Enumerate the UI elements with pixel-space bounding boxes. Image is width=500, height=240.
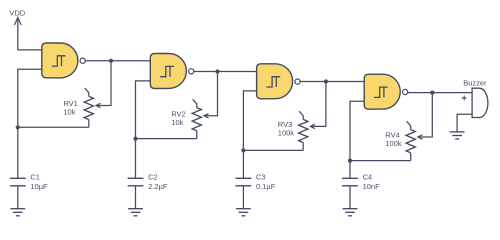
variable resistor RV4	[407, 121, 411, 129]
inverting output bubble of U4	[403, 89, 408, 94]
svg-text:C4: C4	[363, 172, 373, 181]
wire feedback node to RV1 bottom	[18, 126, 89, 128]
inverting output bubble of U3	[295, 79, 300, 84]
wire VDD to U1 top input	[18, 49, 42, 51]
svg-text:100k: 100k	[278, 128, 295, 137]
wire U4 output to buzzer	[408, 92, 472, 94]
wire U4 output node to RV4 wiper	[418, 93, 432, 137]
wire U3 output to U4 input	[300, 81, 364, 83]
wire U1 output to U2 input	[85, 60, 150, 62]
Schmitt-trigger NAND gate U3	[257, 64, 293, 99]
wire feedback node down to C2	[135, 139, 137, 179]
wire buzzer negative lead to ground	[457, 114, 472, 132]
hysteresis symbol inside U2	[160, 66, 174, 76]
Schmitt-trigger NAND gate U1	[42, 43, 78, 78]
wiper arrow of RV1	[96, 103, 101, 107]
wire U4 bottom input to feedback node	[350, 101, 364, 160]
inverting output bubble of U2	[189, 69, 194, 74]
hysteresis symbol inside U4	[374, 87, 388, 97]
junction node output of U4	[430, 91, 434, 95]
junction node feedback of stage 3	[241, 148, 245, 152]
VDD arrow	[17, 19, 19, 50]
wire U2 output node to RV2 wiper	[204, 72, 217, 116]
svg-text:C3: C3	[256, 172, 266, 181]
wire C4 to ground	[349, 186, 351, 209]
junction node feedback of stage 1	[16, 125, 20, 129]
wiper arrow of RV3	[310, 124, 315, 128]
variable resistor RV1	[85, 88, 89, 96]
svg-text:2.2µF: 2.2µF	[148, 182, 168, 191]
Schmitt-trigger NAND gate U2	[150, 54, 186, 89]
capacitor C4	[342, 177, 358, 179]
ground of C3	[236, 208, 251, 210]
wiper arrow of RV4	[418, 135, 423, 139]
wire U1 output node to RV1 wiper	[96, 61, 111, 106]
svg-text:VDD: VDD	[9, 9, 25, 18]
junction node output of U2	[215, 69, 219, 73]
svg-text:C1: C1	[30, 172, 40, 181]
wire U3 bottom input to feedback node	[243, 91, 256, 150]
svg-text:10k: 10k	[63, 108, 75, 117]
svg-text:0.1µF: 0.1µF	[256, 182, 276, 191]
ground of C2	[128, 208, 143, 210]
wire C1 to ground	[17, 186, 19, 209]
wire feedback node to RV3 bottom	[243, 149, 303, 151]
Schmitt-trigger NAND gate U4	[364, 74, 400, 109]
svg-text:C2: C2	[148, 172, 158, 181]
wire feedback node down to C3	[242, 150, 244, 178]
junction node output of U1	[109, 59, 113, 63]
inverting output bubble of U1	[80, 58, 85, 63]
wire feedback node to RV2 bottom	[136, 138, 197, 140]
svg-text:Buzzer: Buzzer	[463, 79, 487, 88]
wire feedback node to RV4 bottom	[350, 160, 411, 162]
buzzer LS1	[472, 88, 488, 117]
svg-text:10µF: 10µF	[30, 182, 48, 191]
capacitor C1	[10, 177, 26, 179]
ground of C1	[10, 208, 25, 210]
svg-text:100k: 100k	[385, 139, 402, 148]
junction node output of U3	[324, 79, 328, 83]
junction node U4 output to buzzer	[430, 91, 434, 95]
variable resistor RV3	[299, 111, 303, 119]
ground of buzzer	[450, 131, 465, 133]
buzzer plus polarity mark	[462, 97, 467, 99]
wire C3 to ground	[242, 186, 244, 209]
capacitor C2	[128, 177, 144, 179]
wire feedback node down to C1	[17, 127, 19, 178]
svg-text:10k: 10k	[171, 118, 183, 127]
hysteresis symbol inside U3	[267, 77, 281, 87]
capacitor C3	[236, 177, 252, 179]
svg-text:10nF: 10nF	[363, 182, 381, 191]
wire U1 bottom input to feedback node	[18, 69, 42, 127]
wire feedback node down to C4	[349, 161, 351, 179]
wiper arrow of RV2	[204, 114, 209, 118]
wire U2 bottom input to feedback node	[136, 81, 151, 139]
hysteresis symbol inside U1	[52, 56, 66, 66]
wire U3 output node to RV3 wiper	[311, 82, 326, 127]
junction node feedback of stage 2	[133, 137, 137, 141]
variable resistor RV2	[193, 99, 197, 107]
ground of C4	[343, 208, 358, 210]
junction node feedback of stage 4	[348, 159, 352, 163]
wire U2 output to U3 input	[194, 71, 257, 73]
wire C2 to ground	[135, 186, 137, 209]
